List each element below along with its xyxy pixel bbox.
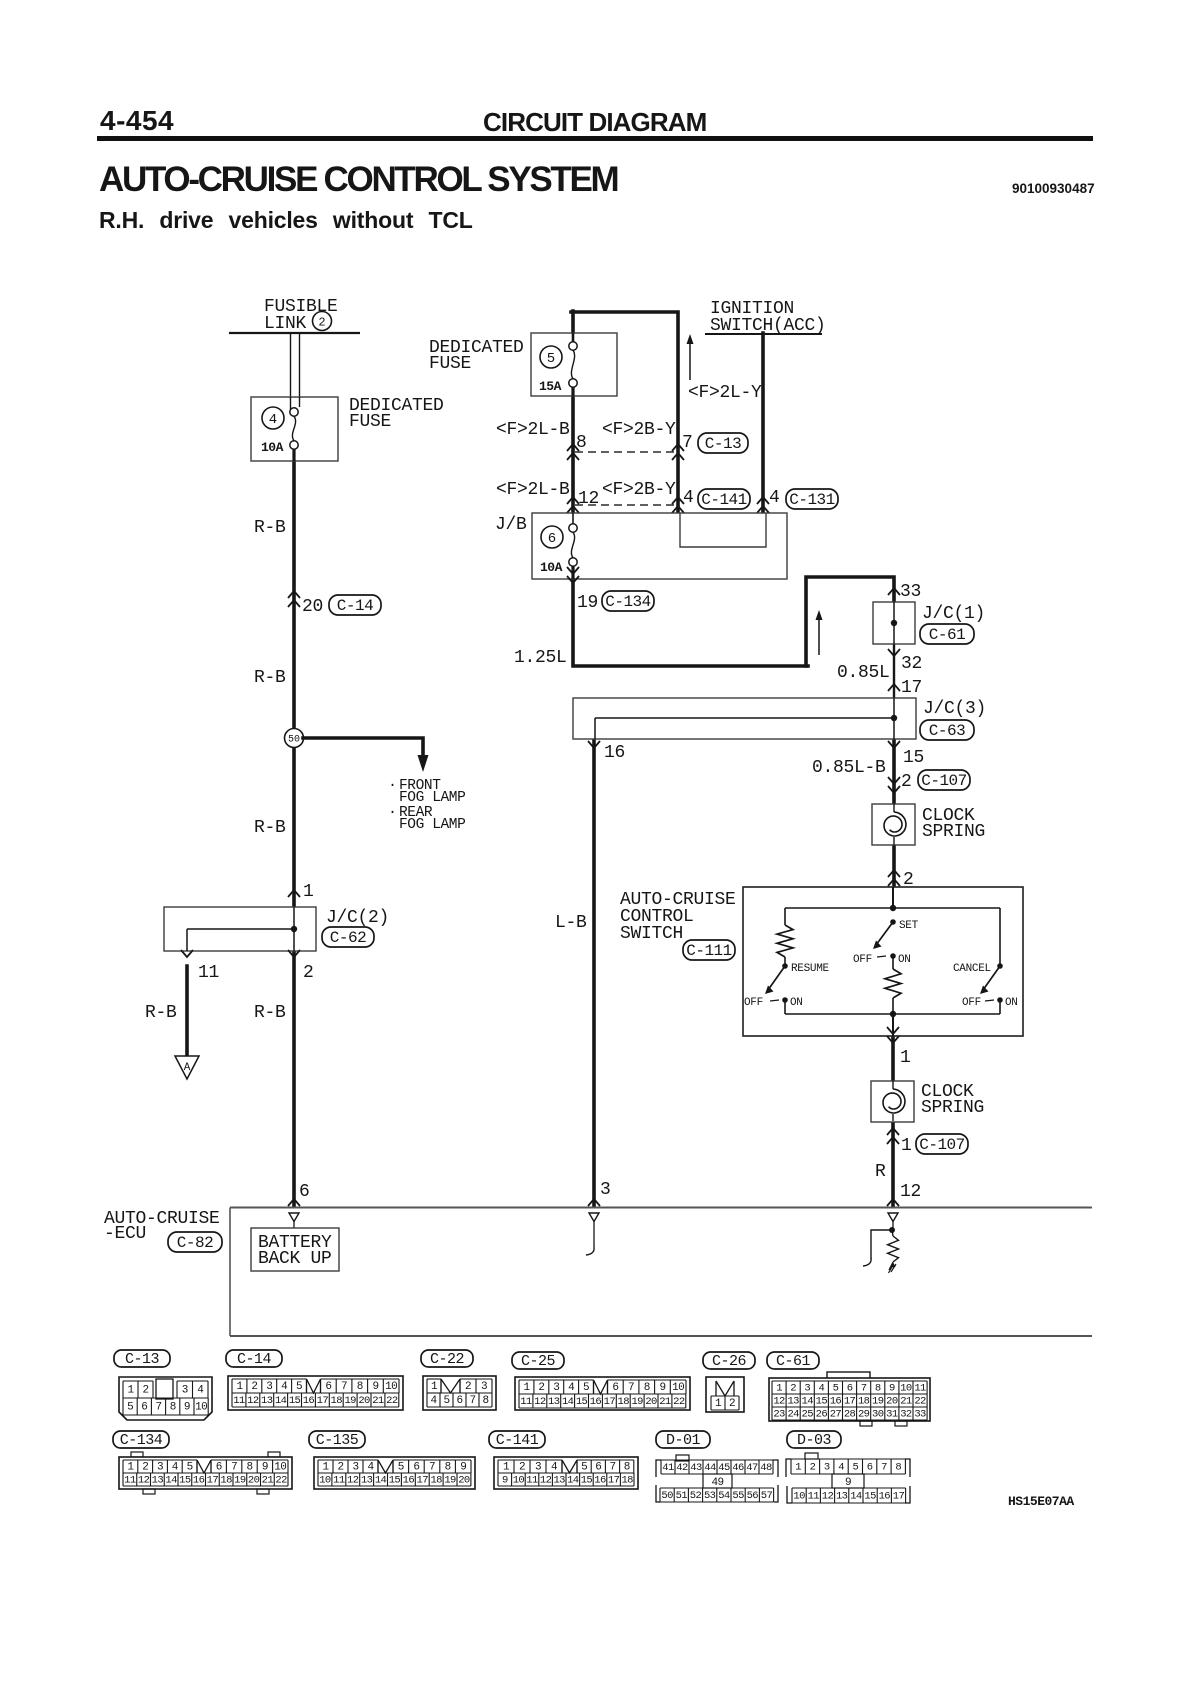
connector C-134 pin diagram [119,1452,292,1494]
resume branch resistor [777,908,793,966]
cancel ON contact dot [997,997,1003,1003]
svg-text:ON: ON [790,997,803,1009]
junction connector J/C(3) box [573,698,916,739]
svg-text:8: 8 [357,1381,363,1393]
J/C(1) internal wire and junction dot [891,602,897,644]
svg-text:<F>2B-Y: <F>2B-Y [602,420,676,440]
svg-text:<F>2L-B: <F>2L-B [496,480,570,500]
fuse F4 symbol [290,408,298,416]
connector label C-61 inline [920,624,974,644]
svg-text:18: 18 [618,1396,630,1408]
svg-text:17: 17 [901,678,922,698]
svg-text:43: 43 [690,1462,702,1474]
svg-text:9: 9 [659,1382,665,1394]
svg-text:10A: 10A [261,440,284,455]
svg-text:C-107: C-107 [921,772,967,790]
svg-text:13: 13 [152,1474,164,1486]
svg-text:R-B: R-B [145,1003,177,1023]
svg-text:1: 1 [715,1398,722,1410]
svg-text:SET: SET [899,920,919,932]
svg-text:90100930487: 90100930487 [1012,181,1095,196]
svg-text:54: 54 [718,1490,730,1502]
chevron below J/C(3) pin 16 [588,741,600,748]
svg-text:11: 11 [124,1474,136,1486]
wire 2L-B / 1.25L trunk: fuse 5 through J/B to J/C(1) pin 33 [573,311,894,666]
connector label C-141 inline [698,489,750,509]
svg-text:52: 52 [690,1490,702,1502]
connector label C-131 inline [786,489,838,509]
svg-text:11: 11 [808,1490,820,1502]
svg-text:21: 21 [262,1474,274,1486]
svg-text:13: 13 [361,1474,373,1486]
svg-text:16: 16 [303,1395,315,1407]
svg-text:12: 12 [247,1395,259,1407]
svg-text:27: 27 [830,1408,842,1420]
set switch blade [873,922,893,949]
svg-text:29: 29 [858,1408,870,1420]
svg-text:3: 3 [481,1381,487,1393]
header rule [97,136,1093,141]
svg-text:8: 8 [445,1461,451,1473]
svg-text:C-62: C-62 [330,929,366,947]
clock spring lower coil symbol [883,1081,905,1121]
auto-cruise ECU label [104,1209,220,1244]
svg-text:·: · [388,804,397,821]
set ON contact dot [890,953,896,959]
svg-text:ON: ON [898,954,911,966]
svg-text:11: 11 [914,1382,926,1394]
svg-text:2: 2 [538,1382,544,1394]
svg-text:13: 13 [787,1395,799,1407]
svg-text:C-25: C-25 [521,1353,556,1370]
connector D-03 pin diagram [786,1453,910,1503]
svg-text:3: 3 [352,1461,358,1473]
svg-text:R-B: R-B [254,518,286,538]
set OFF-ON dash [877,956,886,957]
svg-text:HS15E07AA: HS15E07AA [1008,1494,1074,1509]
auto-cruise control switch box [743,887,1023,1036]
svg-text:13: 13 [261,1395,273,1407]
svg-text:6: 6 [141,1401,147,1413]
svg-text:11: 11 [233,1395,245,1407]
wire 2L-Y from ignition switch to J/B [761,333,765,512]
svg-text:50: 50 [661,1490,673,1502]
svg-text:·: · [388,777,397,794]
switch internal top bus [785,907,1000,909]
svg-text:5: 5 [547,351,555,367]
svg-text:18: 18 [220,1474,232,1486]
svg-text:19: 19 [444,1474,456,1486]
svg-text:J/C(1): J/C(1) [922,604,985,624]
connector C-22 label [421,1350,473,1367]
svg-text:CIRCUIT DIAGRAM: CIRCUIT DIAGRAM [483,107,706,137]
switch top bus junction dot [890,905,896,911]
svg-text:19: 19 [344,1395,356,1407]
svg-text:55: 55 [732,1490,744,1502]
switch internal bottom bus [785,1013,1000,1015]
fuse F6 symbol in J/B [569,524,577,532]
connector C-135 pin diagram [314,1457,475,1489]
svg-text:8: 8 [895,1461,901,1473]
svg-text:7: 7 [881,1461,887,1473]
ECU pin 6 triangle [289,1213,299,1228]
svg-text:24: 24 [787,1408,799,1420]
wire auto-cruise switch to clock spring lower [891,1036,895,1081]
svg-text:8: 8 [875,1382,881,1394]
connector C-25 pin diagram [515,1377,690,1410]
svg-text:13: 13 [553,1474,565,1486]
svg-text:7: 7 [861,1382,867,1394]
connector label C-14 inline [329,595,381,615]
connector label C-107 inline lower [916,1134,968,1154]
svg-text:CANCEL: CANCEL [953,963,991,975]
svg-text:48: 48 [760,1462,772,1474]
chevron at ECU pin 6 [288,1199,300,1206]
svg-text:17: 17 [417,1474,429,1486]
svg-text:4: 4 [769,488,780,508]
svg-text:16: 16 [879,1490,891,1502]
svg-text:7: 7 [155,1401,161,1413]
connector C-141 label [489,1431,545,1448]
label DEDICATED FUSE for fuse 4 [349,396,444,432]
svg-text:14: 14 [165,1474,177,1486]
svg-text:1: 1 [322,1461,329,1473]
svg-text:5: 5 [127,1401,133,1413]
svg-text:49: 49 [711,1477,723,1489]
svg-text:AUTO-CRUISE CONTROL SYSTEM: AUTO-CRUISE CONTROL SYSTEM [99,160,618,199]
svg-text:4-454: 4-454 [100,105,174,136]
svg-text:9: 9 [184,1401,190,1413]
svg-text:LINK: LINK [264,314,307,334]
svg-text:46: 46 [732,1462,744,1474]
svg-text:6: 6 [595,1461,601,1473]
svg-text:16: 16 [604,743,625,763]
svg-text:19: 19 [577,593,598,613]
wire 0.85L-B J/C(3) to clock spring [892,738,896,804]
svg-text:15: 15 [903,748,924,768]
svg-text:15: 15 [179,1474,191,1486]
svg-text:15: 15 [389,1474,401,1486]
svg-text:12: 12 [138,1474,150,1486]
fog lamp branch wire with arrow [303,738,429,772]
svg-text:12: 12 [347,1474,359,1486]
label DEDICATED FUSE for fuse 5 [429,338,524,374]
svg-text:1: 1 [127,1384,134,1396]
svg-text:C-14: C-14 [237,1351,272,1368]
svg-text:<F>2L-B: <F>2L-B [496,420,570,440]
svg-text:OFF: OFF [853,954,872,966]
clock spring upper coil symbol [884,804,906,845]
svg-text:5: 5 [398,1461,404,1473]
svg-text:22: 22 [914,1395,926,1407]
svg-text:6: 6 [413,1461,419,1473]
svg-text:14: 14 [802,1395,814,1407]
svg-text:15: 15 [816,1395,828,1407]
chevron at ECU pin 12 [887,1199,899,1206]
svg-text:11: 11 [526,1474,538,1486]
svg-text:2: 2 [251,1381,257,1393]
resume OFF-ON dash [770,1000,779,1001]
svg-text:R.H. drive vehicles without TC: R.H. drive vehicles without TCL [99,207,473,233]
svg-text:5: 5 [852,1461,858,1473]
chevrons row 2 on 2L-B [567,497,579,504]
connector label C-134 inline [602,591,654,611]
svg-text:C-141: C-141 [701,491,747,509]
chevron into J/C(3) [888,684,900,691]
cancel contact dot [997,963,1003,969]
connector C-14 label [226,1350,282,1367]
svg-text:57: 57 [761,1490,773,1502]
svg-text:21: 21 [900,1395,912,1407]
svg-text:44: 44 [704,1462,716,1474]
svg-text:9: 9 [845,1477,851,1489]
chevron below J/C(3) pin 15 [888,741,900,748]
svg-text:14: 14 [850,1490,862,1502]
svg-text:32: 32 [901,654,922,674]
svg-text:C-107: C-107 [919,1136,965,1154]
svg-text:16: 16 [590,1396,602,1408]
svg-text:13: 13 [836,1490,848,1502]
svg-text:45: 45 [718,1462,730,1474]
svg-text:7: 7 [628,1382,634,1394]
svg-text:10: 10 [672,1382,684,1394]
svg-text:1: 1 [431,1381,438,1393]
svg-text:J/B: J/B [495,515,527,535]
fuse F5 symbol [569,342,577,350]
svg-text:4: 4 [197,1384,204,1396]
svg-text:26: 26 [816,1408,828,1420]
ECU pin 12 junction dot [889,1227,895,1233]
clock spring upper label [922,806,985,842]
fuse 5 internal wire stubs [572,333,575,396]
svg-text:FUSE: FUSE [429,354,471,374]
J/C(3) internal wires and junction dot [595,698,897,739]
svg-text:1: 1 [523,1382,530,1394]
switch internal exit wire [892,1014,894,1036]
svg-text:SWITCH: SWITCH [620,924,683,944]
svg-text:2: 2 [142,1384,148,1396]
svg-text:25: 25 [802,1408,814,1420]
resume branch lower wire [784,1000,786,1014]
svg-text:19: 19 [872,1395,884,1407]
svg-text:17: 17 [604,1396,616,1408]
svg-text:10: 10 [195,1401,207,1413]
connector D-03 label [787,1431,841,1448]
connector label C-13 inline [698,433,748,453]
wire 2B-Y branch from fuse 5 top to J/B [571,312,678,512]
svg-text:12: 12 [540,1474,552,1486]
svg-text:2: 2 [318,315,325,329]
svg-text:R-B: R-B [254,668,286,688]
connector label C-107 inline upper [918,770,970,790]
ECU internal branch with hook [863,1230,892,1266]
svg-text:22: 22 [673,1396,685,1408]
svg-text:4: 4 [838,1461,844,1473]
svg-text:12: 12 [900,1182,921,1202]
svg-text:20: 20 [645,1396,657,1408]
chevron below J/C(2) pin 2 [288,950,300,957]
svg-text:14: 14 [375,1474,387,1486]
direction arrow up beside 2L-Y [687,334,694,380]
svg-text:1: 1 [236,1381,243,1393]
svg-text:4: 4 [367,1461,374,1473]
svg-text:C-82: C-82 [177,1234,213,1252]
svg-text:12: 12 [773,1395,785,1407]
SET contact dot [890,919,896,925]
svg-text:R-B: R-B [254,818,286,838]
svg-text:18: 18 [858,1395,870,1407]
svg-text:C-13: C-13 [125,1351,160,1368]
svg-text:10: 10 [319,1474,331,1486]
double chevron leaving switch [887,1036,899,1043]
ECU pin 12 triangle [888,1213,898,1228]
svg-text:C-141: C-141 [496,1432,539,1449]
ignition switch bus underline [705,333,822,335]
svg-text:20: 20 [886,1395,898,1407]
svg-text:-ECU: -ECU [104,1224,146,1244]
ignition switch (ACC) label [710,299,826,336]
battery back up label [258,1233,332,1269]
svg-text:BACK UP: BACK UP [258,1249,332,1269]
chevrons row 1 on 2L-B [567,444,579,451]
svg-text:4: 4 [551,1461,558,1473]
connector C-14 pin diagram [228,1376,403,1410]
svg-text:18: 18 [621,1474,633,1486]
cancel OFF-ON dash [985,1000,994,1001]
svg-text:4: 4 [430,1395,437,1407]
svg-text:R: R [875,1162,886,1182]
svg-text:6: 6 [216,1461,222,1473]
chevron into J/C(1) [888,588,900,595]
svg-text:10: 10 [274,1461,286,1473]
svg-text:RESUME: RESUME [791,963,830,975]
svg-text:12: 12 [578,489,599,509]
fog lamp destination labels [388,777,465,833]
svg-text:5: 5 [296,1381,302,1393]
chevron below J/C(1) [888,649,900,656]
ground branch wire R-B [185,966,189,1056]
connector label C-82 inline [168,1232,222,1252]
cancel branch wire [999,908,1001,966]
svg-text:8: 8 [246,1461,252,1473]
svg-text:51: 51 [676,1490,688,1502]
svg-text:4: 4 [818,1382,824,1394]
connector C-61 label [767,1352,819,1369]
svg-text:5: 5 [187,1461,193,1473]
svg-text:FOG LAMP: FOG LAMP [399,817,465,833]
svg-text:4: 4 [683,488,694,508]
svg-text:3: 3 [535,1461,541,1473]
J/B internal wire stubs at fuse 6 [572,513,574,579]
svg-text:15: 15 [576,1396,588,1408]
svg-text:1: 1 [901,1136,912,1156]
svg-text:8: 8 [170,1401,176,1413]
svg-text:D-01: D-01 [666,1432,701,1449]
svg-text:11: 11 [520,1396,532,1408]
chevrons row 2 on 2B-Y [672,497,684,504]
svg-text:3: 3 [600,1180,611,1200]
svg-text:A: A [184,1062,191,1074]
svg-text:6: 6 [847,1382,853,1394]
junction connector J/C(2) box [164,907,316,951]
junction block J/B box [532,513,787,579]
J/B internal notch compartment [680,513,766,547]
svg-text:17: 17 [608,1474,620,1486]
fusible link double wire [291,333,300,397]
svg-text:8: 8 [644,1382,650,1394]
svg-text:30: 30 [872,1408,884,1420]
svg-text:18: 18 [430,1474,442,1486]
connector C-13 label [114,1350,170,1367]
fuse 4 internal wire stubs [291,397,300,461]
svg-text:11: 11 [198,963,219,983]
double chevron into auto-cruise switch [888,870,900,877]
svg-text:3: 3 [157,1461,163,1473]
svg-text:5: 5 [583,1382,589,1394]
svg-text:4: 4 [172,1461,179,1473]
svg-text:SPRING: SPRING [921,1098,984,1118]
ECU pin 3 triangle and stub [586,1213,599,1255]
svg-text:C-111: C-111 [686,942,732,960]
svg-text:8: 8 [482,1395,488,1407]
svg-text:3: 3 [804,1382,810,1394]
svg-text:FOG LAMP: FOG LAMP [399,790,465,806]
svg-text:10A: 10A [540,560,563,575]
svg-text:2: 2 [790,1382,796,1394]
wire clock spring to auto-cruise switch [892,844,896,888]
svg-text:14: 14 [275,1395,287,1407]
svg-text:17: 17 [844,1395,856,1407]
svg-text:16: 16 [830,1395,842,1407]
double chevron on R-B at C-14 [288,591,300,598]
svg-text:50: 50 [288,735,300,746]
wire R clock spring to ECU pin 12 [891,1121,895,1206]
svg-text:31: 31 [886,1408,898,1420]
svg-text:3: 3 [182,1384,188,1396]
junction connector J/C(1) box [873,602,915,644]
svg-text:9: 9 [372,1381,378,1393]
svg-text:3: 3 [266,1381,272,1393]
svg-text:4: 4 [269,412,277,428]
svg-text:C-22: C-22 [430,1351,464,1368]
ECU internal resistor at pin 12 [888,1230,899,1273]
svg-text:6: 6 [299,1182,310,1202]
svg-text:33: 33 [914,1408,926,1420]
svg-text:53: 53 [704,1490,716,1502]
connector C-135 label [309,1431,365,1448]
svg-text:33: 33 [900,582,921,602]
chevrons on 2L-Y entering J/B [757,497,769,504]
cancel switch blade [980,966,1000,994]
svg-text:2: 2 [337,1461,343,1473]
svg-text:47: 47 [746,1462,758,1474]
svg-text:7: 7 [231,1461,237,1473]
connector D-01 pin diagram [656,1455,778,1502]
svg-text:56: 56 [747,1490,759,1502]
svg-text:21: 21 [659,1396,671,1408]
fuse 6 circled number [541,526,563,548]
svg-text:17: 17 [893,1490,905,1502]
dedicated fuse 4 box [251,397,338,461]
svg-text:6: 6 [456,1395,462,1407]
chevrons row 1 on 2B-Y [672,444,684,451]
wire 0.85L J/C(1) to J/C(3) [893,644,895,698]
svg-text:C-135: C-135 [316,1432,359,1449]
svg-text:10: 10 [513,1474,525,1486]
svg-text:16: 16 [403,1474,415,1486]
svg-text:7: 7 [469,1395,475,1407]
svg-text:D-03: D-03 [797,1432,832,1449]
